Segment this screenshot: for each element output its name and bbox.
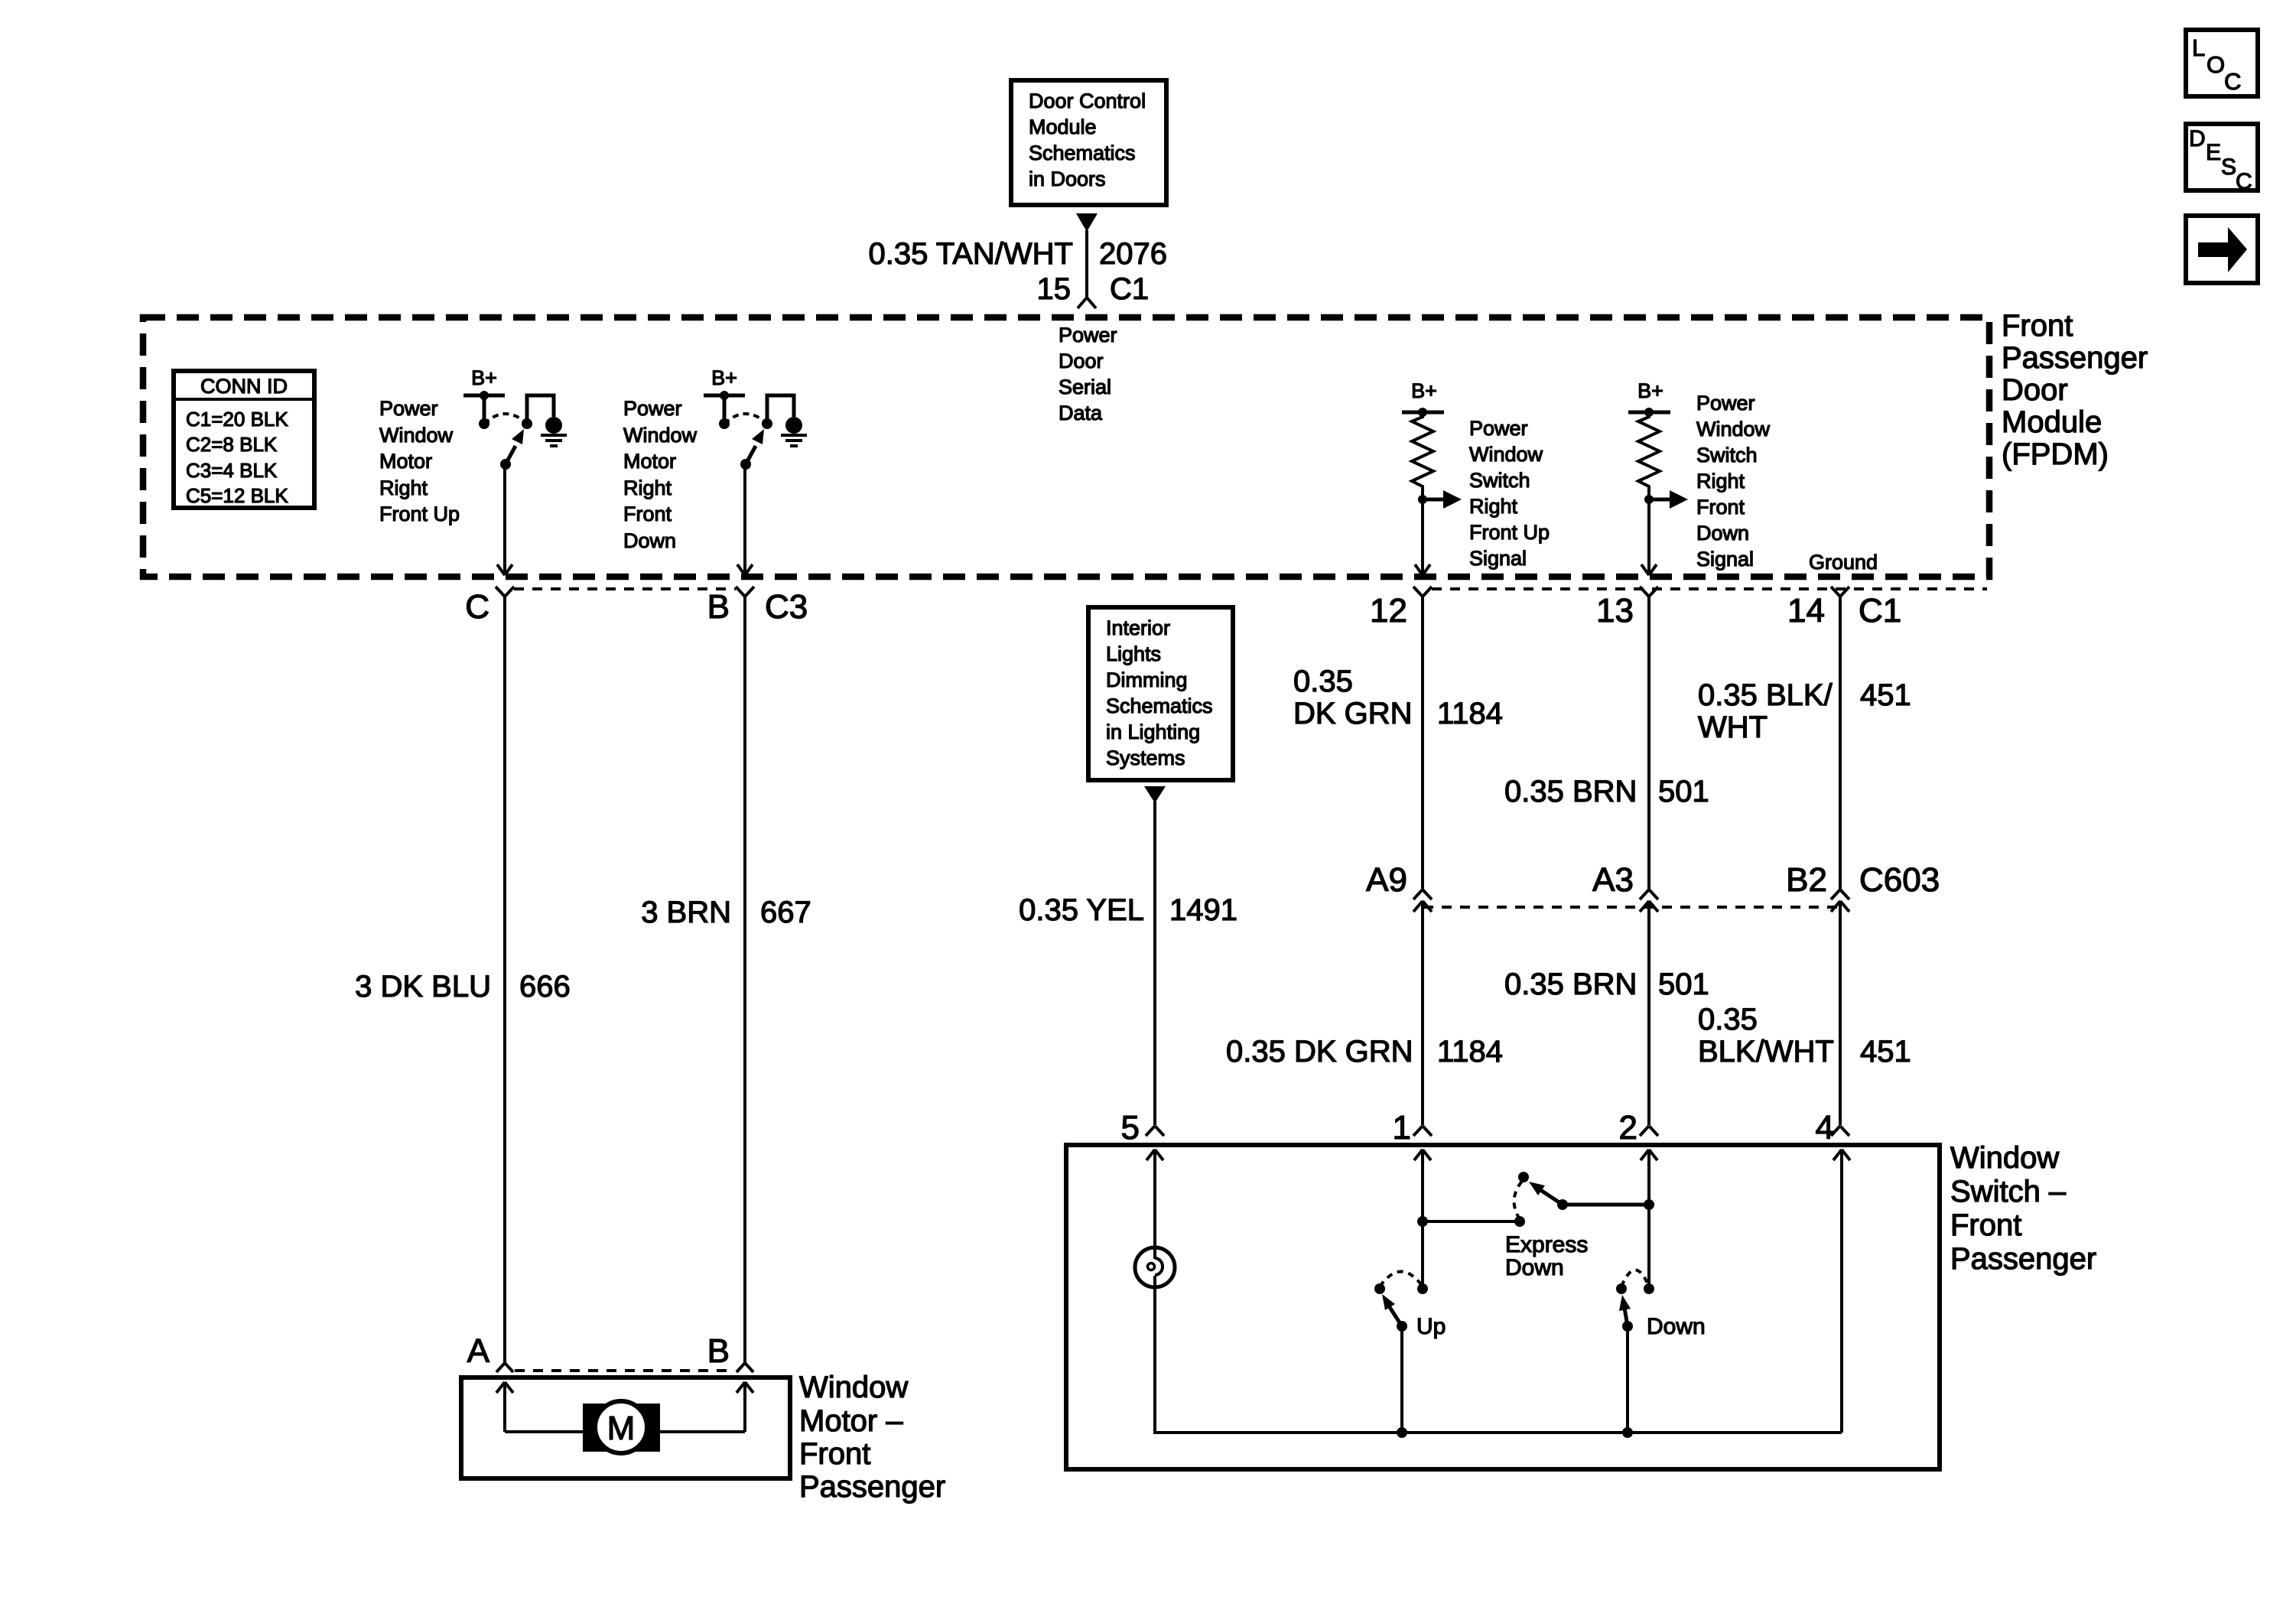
svg-text:C1=20 BLK: C1=20 BLK <box>186 408 288 431</box>
svg-text:C: C <box>465 588 489 626</box>
connector C1 dashed line <box>1432 587 1987 590</box>
connector chevron pin 5 <box>1146 1126 1164 1136</box>
svg-text:Data: Data <box>1059 402 1103 424</box>
box Window Motor Front Passenger <box>461 1377 790 1478</box>
ground ball motor down <box>785 417 802 434</box>
svg-text:Right: Right <box>1696 470 1745 493</box>
svg-text:0.35 BLK/: 0.35 BLK/ <box>1698 678 1833 712</box>
label Power Window Switch Right Front Up Signal <box>1469 417 1550 570</box>
svg-text:Power: Power <box>623 397 682 420</box>
CONN ID table <box>174 371 314 508</box>
express wire to pin 2 <box>1563 1203 1649 1207</box>
svg-text:Motor: Motor <box>379 450 432 473</box>
svg-text:4: 4 <box>1816 1109 1834 1147</box>
motor connector dashed line <box>515 1369 734 1372</box>
B+ rail motor up <box>463 394 505 398</box>
svg-text:501: 501 <box>1658 968 1709 1001</box>
connector chevron pin 12 <box>1413 587 1432 597</box>
svg-text:Ground: Ground <box>1809 551 1878 574</box>
box Interior Lights Dimming Schematics <box>1088 607 1233 780</box>
svg-text:3 BRN: 3 BRN <box>641 896 731 929</box>
off-page arrow from Door Control box <box>1076 213 1098 232</box>
svg-text:Down: Down <box>623 529 676 552</box>
arrowhead inside switch box pin 5 <box>1146 1150 1163 1160</box>
B+ rail switch down <box>1628 411 1670 415</box>
svg-text:B+: B+ <box>1411 379 1437 402</box>
svg-text:C3=4 BLK: C3=4 BLK <box>186 459 278 482</box>
icon LOC box <box>2186 30 2258 96</box>
svg-text:Systems: Systems <box>1106 746 1185 769</box>
connector chevron pin 13 <box>1640 587 1658 597</box>
wire A9 to pin 1 <box>1421 901 1424 1125</box>
svg-text:13: 13 <box>1596 592 1634 629</box>
svg-text:C5=12 BLK: C5=12 BLK <box>186 484 288 507</box>
svg-text:Switch –: Switch – <box>1950 1175 2067 1208</box>
arrowhead inside switch box pin 1 <box>1414 1150 1431 1160</box>
B+ stub motor down <box>723 395 727 424</box>
connector chevron pin C <box>496 587 514 597</box>
svg-text:Front Up: Front Up <box>1469 521 1550 544</box>
svg-text:2076: 2076 <box>1099 237 1167 271</box>
label Power Door Serial Data <box>1059 324 1117 424</box>
svg-text:0.35 BRN: 0.35 BRN <box>1504 968 1637 1001</box>
svg-text:Front: Front <box>799 1437 870 1471</box>
wire motor up to pin C <box>503 464 506 574</box>
resistor stub <box>1421 488 1424 499</box>
svg-text:3 DK BLU: 3 DK BLU <box>355 970 491 1003</box>
svg-text:Front: Front <box>1950 1208 2021 1242</box>
svg-text:S: S <box>2221 154 2236 180</box>
svg-text:0.35 TAN/WHT: 0.35 TAN/WHT <box>869 237 1073 271</box>
label Front Passenger Door Module (FPDM) <box>2002 309 2148 471</box>
connector chevron pin 2 <box>1640 1126 1658 1136</box>
ground symbol motor down <box>781 435 807 446</box>
wire dimming to pin 5 <box>1153 802 1156 1125</box>
svg-text:CONN ID: CONN ID <box>200 375 288 398</box>
box Window Switch Front Passenger <box>1066 1145 1940 1469</box>
svg-text:C1: C1 <box>1859 592 1901 629</box>
label Power Window Motor Right Front Up <box>379 397 460 525</box>
B+ rail switch up <box>1402 411 1444 415</box>
svg-text:Passenger: Passenger <box>799 1470 945 1504</box>
svg-text:B+: B+ <box>711 366 737 389</box>
svg-text:Passenger: Passenger <box>1950 1242 2096 1276</box>
wire motor B <box>743 1382 746 1432</box>
arrowhead inside motor box pin B <box>737 1382 753 1393</box>
express tap line <box>1423 1220 1520 1223</box>
arrowhead at border pin B <box>737 564 753 575</box>
contact elbow to ground motor down <box>767 395 794 424</box>
off-page arrow from Interior Lights box <box>1144 786 1166 803</box>
svg-text:C: C <box>2236 169 2252 194</box>
svg-text:Front: Front <box>1696 496 1745 519</box>
svg-text:14: 14 <box>1787 592 1825 629</box>
svg-text:Serial: Serial <box>1059 376 1111 398</box>
express switch arm <box>1529 1182 1563 1205</box>
wire pin 12 to A9 <box>1421 597 1424 890</box>
wire B to motor B <box>743 597 746 1363</box>
svg-text:Power: Power <box>1469 417 1528 440</box>
ground symbol motor up <box>541 435 567 446</box>
connector C603 chevron A9 <box>1413 890 1432 912</box>
svg-text:C2=8 BLK: C2=8 BLK <box>186 433 278 456</box>
svg-text:Right: Right <box>623 476 672 499</box>
svg-text:A3: A3 <box>1592 861 1634 899</box>
arrowhead at border pin C <box>497 564 512 575</box>
svg-text:0.35 YEL: 0.35 YEL <box>1019 893 1144 927</box>
icon arrow box <box>2186 216 2258 283</box>
svg-text:0.35: 0.35 <box>1698 1003 1758 1036</box>
contact elbow to ground motor up <box>527 395 554 424</box>
connector chevron pin A <box>496 1363 513 1372</box>
connector C603 chevron B2 <box>1831 890 1849 912</box>
svg-text:Down: Down <box>1647 1314 1706 1339</box>
svg-text:in Doors: in Doors <box>1029 168 1106 190</box>
svg-text:Right: Right <box>379 476 428 499</box>
box Door Control Module Schematics in Doors <box>1011 80 1166 205</box>
svg-text:Front: Front <box>2002 309 2073 343</box>
resistor R window switch up <box>1412 415 1433 489</box>
resistor R window switch down <box>1638 415 1660 489</box>
FPDM module dashed box <box>143 317 1989 577</box>
svg-text:Schematics: Schematics <box>1029 141 1136 164</box>
svg-text:Window: Window <box>1696 418 1771 441</box>
svg-text:B: B <box>707 1332 730 1370</box>
svg-text:501: 501 <box>1658 775 1709 808</box>
wire motor A <box>503 1382 506 1432</box>
express contact <box>1518 1172 1529 1182</box>
B+ stub motor up <box>483 395 486 424</box>
svg-text:C1: C1 <box>1110 272 1149 306</box>
svg-text:WHT: WHT <box>1698 711 1768 744</box>
down travel arc <box>1621 1270 1649 1287</box>
svg-text:Window: Window <box>1950 1141 2059 1175</box>
svg-text:Express: Express <box>1505 1232 1588 1257</box>
ground ball motor up <box>545 417 562 434</box>
svg-text:Signal: Signal <box>1469 547 1527 570</box>
svg-text:Switch: Switch <box>1696 444 1758 467</box>
switch arm motor down <box>746 429 764 464</box>
switch arm motor up <box>506 429 524 464</box>
svg-text:C3: C3 <box>765 588 808 626</box>
connector chevron pin 15 <box>1078 298 1096 308</box>
wire pin 5 to lamp <box>1153 1150 1156 1259</box>
svg-text:Front Up: Front Up <box>379 503 460 525</box>
express travel arc <box>1514 1179 1524 1219</box>
connector chevron pin B <box>736 587 754 597</box>
connector C3 dashed line <box>514 587 736 590</box>
svg-text:(FPDM): (FPDM) <box>2002 437 2109 471</box>
motor M symbol <box>583 1401 660 1453</box>
svg-text:Up: Up <box>1416 1314 1446 1339</box>
connector C603 chevron A3 <box>1640 890 1658 912</box>
svg-text:B+: B+ <box>471 366 497 389</box>
svg-text:Switch: Switch <box>1469 469 1530 492</box>
svg-text:1491: 1491 <box>1169 893 1237 927</box>
svg-text:2: 2 <box>1619 1109 1637 1147</box>
svg-text:Right: Right <box>1469 495 1518 518</box>
switch travel arc motor down <box>724 414 767 424</box>
resistor stub <box>1647 488 1650 499</box>
svg-text:Lights: Lights <box>1106 642 1161 665</box>
svg-text:C603: C603 <box>1859 861 1940 899</box>
arrowhead inside switch box pin 2 <box>1641 1150 1657 1160</box>
up switch contacts <box>1374 1283 1385 1294</box>
illumination lamp <box>1135 1247 1175 1287</box>
svg-text:Window: Window <box>623 424 698 447</box>
switch bottom rail <box>1153 1431 1842 1434</box>
wire up arm to rail <box>1400 1326 1403 1433</box>
svg-text:Module: Module <box>1029 115 1097 138</box>
svg-text:E: E <box>2206 140 2221 165</box>
connector chevron pin 1 <box>1413 1126 1432 1136</box>
up travel arc <box>1380 1272 1423 1287</box>
down switch arm <box>1619 1295 1631 1326</box>
svg-text:in Lighting: in Lighting <box>1106 720 1200 743</box>
svg-text:15: 15 <box>1037 272 1072 306</box>
svg-text:DK GRN: DK GRN <box>1293 697 1413 730</box>
label Window Motor Front Passenger <box>799 1371 945 1504</box>
svg-text:Down: Down <box>1505 1255 1564 1280</box>
arrowhead at border pin 12 <box>1415 564 1430 575</box>
svg-text:451: 451 <box>1860 678 1911 712</box>
svg-text:1184: 1184 <box>1437 697 1503 730</box>
svg-text:Window: Window <box>379 424 454 447</box>
svg-text:Motor: Motor <box>623 450 676 473</box>
svg-text:451: 451 <box>1860 1035 1911 1068</box>
connector chevron pin 14 <box>1831 587 1849 597</box>
svg-text:BLK/WHT: BLK/WHT <box>1698 1035 1834 1068</box>
icon DESC box <box>2186 124 2258 194</box>
wire A3 to pin 2 <box>1647 901 1650 1125</box>
label Power Window Motor Right Front Down <box>623 397 698 552</box>
svg-text:Power: Power <box>1059 324 1117 346</box>
svg-text:5: 5 <box>1121 1109 1140 1147</box>
wire down arm to rail <box>1626 1326 1629 1433</box>
svg-text:667: 667 <box>760 896 811 929</box>
svg-text:C: C <box>2224 68 2241 95</box>
wire rail to pin 4 <box>1840 1150 1843 1433</box>
svg-text:Down: Down <box>1696 522 1749 545</box>
svg-text:1: 1 <box>1393 1109 1411 1147</box>
svg-text:B: B <box>707 588 730 626</box>
svg-text:0.35 DK GRN: 0.35 DK GRN <box>1226 1035 1413 1068</box>
svg-text:Power: Power <box>379 397 438 420</box>
svg-text:L: L <box>2192 34 2205 61</box>
svg-text:Dimming: Dimming <box>1106 668 1188 691</box>
svg-text:666: 666 <box>519 970 571 1003</box>
wire pin 13 to A3 <box>1647 597 1650 890</box>
down switch contacts <box>1616 1283 1627 1294</box>
arrowhead inside motor box pin A <box>496 1382 513 1393</box>
wire serial data <box>1085 230 1088 298</box>
svg-text:Signal: Signal <box>1696 548 1754 571</box>
wire pin 1 to up contact <box>1421 1150 1424 1289</box>
up switch arm <box>1382 1294 1402 1326</box>
svg-text:B2: B2 <box>1786 861 1827 899</box>
svg-text:Module: Module <box>2002 405 2102 439</box>
svg-text:Window: Window <box>799 1371 908 1404</box>
svg-text:0.35: 0.35 <box>1293 665 1353 698</box>
label Power Window Switch Right Front Down Signal <box>1696 392 1771 571</box>
label Window Switch Front Passenger <box>1950 1141 2096 1276</box>
wire motor down to pin B <box>743 464 746 574</box>
svg-text:Interior: Interior <box>1106 616 1170 639</box>
signal tap arrow switch up <box>1423 490 1462 509</box>
wire switch down to pin 13 <box>1647 499 1650 574</box>
contact motor down <box>762 418 772 429</box>
wire switch up to pin 12 <box>1421 499 1424 574</box>
wire motor horizontal <box>505 1430 745 1433</box>
svg-text:1184: 1184 <box>1437 1035 1503 1068</box>
connector chevron pin 4 <box>1831 1126 1849 1136</box>
svg-text:Door Control: Door Control <box>1029 89 1146 112</box>
B+ rail motor down <box>704 394 745 398</box>
wire B2 to pin 4 <box>1839 901 1842 1125</box>
connector C603 dashed line <box>1423 906 1840 909</box>
svg-text:Door: Door <box>1059 350 1104 372</box>
svg-text:D: D <box>2189 126 2206 151</box>
wire pin 2 to down contact <box>1647 1150 1650 1289</box>
contact motor up <box>522 418 532 429</box>
svg-text:Schematics: Schematics <box>1106 694 1213 717</box>
svg-text:A9: A9 <box>1366 861 1407 899</box>
wire C to motor A <box>503 597 506 1363</box>
arrowhead inside switch box pin 4 <box>1833 1150 1850 1160</box>
svg-text:B+: B+ <box>1637 379 1663 402</box>
svg-text:Window: Window <box>1469 443 1543 466</box>
svg-text:12: 12 <box>1370 592 1407 629</box>
svg-text:Passenger: Passenger <box>2002 341 2148 375</box>
label Express Down <box>1505 1232 1588 1280</box>
svg-text:Motor –: Motor – <box>799 1404 903 1438</box>
wire pin 14 to B2 <box>1839 597 1842 890</box>
signal tap arrow switch down <box>1649 490 1688 509</box>
svg-text:0.35 BRN: 0.35 BRN <box>1504 775 1637 808</box>
svg-text:M: M <box>607 1410 636 1447</box>
wire lamp to bottom rail <box>1153 1276 1156 1433</box>
svg-text:Power: Power <box>1696 392 1755 415</box>
svg-text:A: A <box>467 1332 490 1370</box>
connector chevron pin B motor <box>737 1363 753 1372</box>
svg-text:Door: Door <box>2002 373 2068 407</box>
switch travel arc motor up <box>484 414 527 424</box>
arrowhead at border pin 13 <box>1641 564 1657 575</box>
svg-text:O: O <box>2207 51 2225 78</box>
svg-text:Front: Front <box>623 503 672 525</box>
